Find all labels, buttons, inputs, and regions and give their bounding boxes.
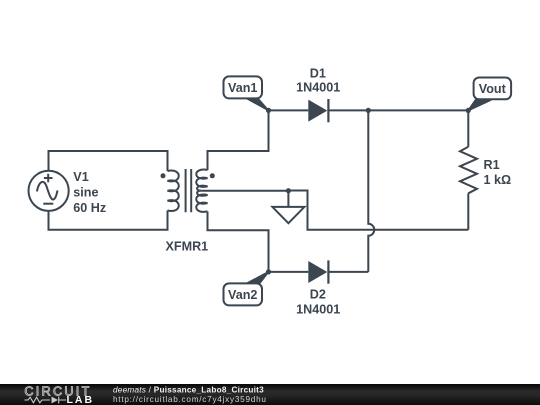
node Vout flag	[468, 78, 511, 111]
footer bar	[0, 384, 540, 405]
svg-text:Van2: Van2	[228, 288, 257, 302]
wire Van2 node to D2 anode	[269, 271, 309, 273]
svg-text:R1: R1	[484, 158, 500, 172]
footer credit line	[113, 386, 267, 404]
wire D2 output riser with hop over ground rail	[368, 110, 374, 272]
transformer primary phase dot	[161, 173, 166, 178]
transformer XFMR1 primary winding	[168, 170, 179, 211]
svg-text:1N4001: 1N4001	[296, 81, 340, 95]
svg-text:sine: sine	[73, 185, 98, 199]
resistor R1	[460, 147, 477, 194]
svg-text:deemats / Puissance_Labo8_Circ: deemats / Puissance_Labo8_Circuit3	[113, 386, 264, 395]
diode D1	[308, 99, 328, 122]
node Vout junction dot	[466, 108, 471, 113]
label R1 value	[484, 158, 512, 187]
label V1 value	[73, 170, 106, 215]
label D1	[296, 66, 340, 94]
node Van1 flag	[224, 76, 269, 110]
voltage source V1	[28, 171, 68, 211]
node center-tap junction dot	[286, 188, 291, 193]
diode D2	[308, 260, 328, 283]
wire V1 bottom to primary	[49, 211, 168, 230]
svg-text:D1: D1	[310, 66, 326, 80]
svg-text:60 Hz: 60 Hz	[73, 201, 106, 215]
svg-text:XFMR1: XFMR1	[166, 239, 209, 253]
svg-text:1N4001: 1N4001	[296, 302, 340, 316]
node Van2 flag	[224, 272, 269, 306]
CircuitLab logo schematic squiggle	[25, 397, 67, 404]
svg-text:LAB: LAB	[67, 394, 95, 405]
wire Vout node to R1 top	[467, 110, 469, 146]
svg-text:http://circuitlab.com/c7y4jxy3: http://circuitlab.com/c7y4jxy359dhu	[113, 395, 267, 404]
transformer XFMR1 core	[186, 169, 192, 212]
wire Van1 node to D1 anode	[269, 109, 309, 111]
wire D2 cathode to riser	[329, 271, 368, 273]
svg-text:1 kΩ: 1 kΩ	[484, 173, 512, 187]
node Van1 junction dot	[266, 108, 271, 113]
transformer XFMR1 secondary winding	[196, 170, 207, 212]
svg-text:V1: V1	[73, 170, 88, 184]
wire D1 cathode to Vout node	[329, 109, 468, 111]
wire secondary center tap	[201, 190, 288, 192]
wire secondary bottom to Van2 node	[208, 212, 269, 272]
svg-text:D2: D2	[310, 287, 326, 301]
wire secondary top to Van1 node	[208, 110, 269, 170]
node internal junction dot (D1/D2 outputs)	[366, 108, 371, 113]
svg-text:Vout: Vout	[479, 82, 507, 96]
ground	[272, 191, 304, 224]
wire R1 bottom stub	[467, 193, 469, 230]
node Van2 junction dot	[266, 269, 271, 274]
transformer secondary phase dot	[210, 173, 215, 178]
svg-text:Van1: Van1	[228, 81, 257, 95]
wire ground rail to R1 bottom	[288, 191, 468, 230]
label D2	[296, 287, 340, 316]
wire V1 top to primary	[49, 151, 168, 171]
